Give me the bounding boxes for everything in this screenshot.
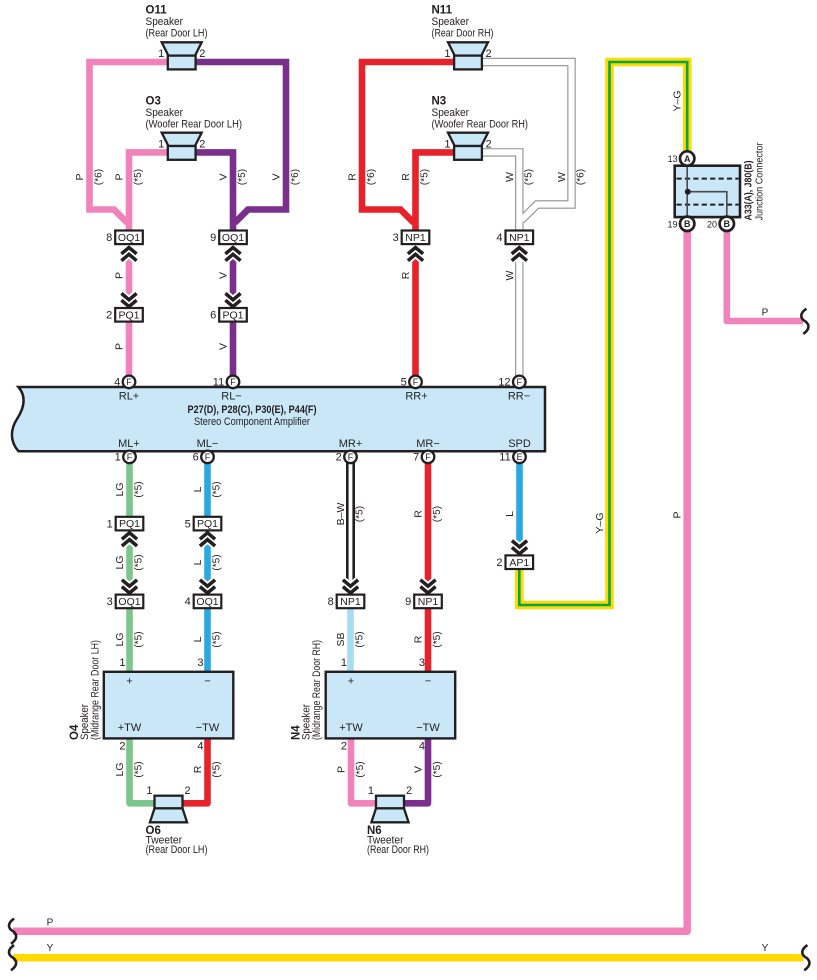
svg-text:1: 1 [115,452,121,464]
svg-text:1: 1 [444,48,450,60]
svg-text:LG: LG [114,555,126,569]
svg-text:5: 5 [401,377,407,389]
speaker N3 symbol [448,133,488,146]
svg-text:P: P [47,918,54,929]
svg-text:(*5): (*5) [212,761,223,777]
wire segment: Y-G yellow-green wire AP1-2 to junction connector pin 13A [519,62,687,605]
svg-text:P: P [114,343,126,350]
junction connector internal dashed bus 1 [677,178,739,180]
amplifier pin 12 (F) [513,376,526,389]
svg-text:Y–G: Y–G [672,90,684,111]
wire segment: pink P branch from junction connector pin 20B to right edge [727,229,803,321]
svg-text:(Woofer Rear Door RH): (Woofer Rear Door RH) [432,118,529,130]
svg-text:2: 2 [496,557,502,569]
svg-text:+: + [126,676,132,688]
svg-text:Speaker: Speaker [146,16,184,28]
svg-text:(*6): (*6) [576,169,587,185]
svg-text:W: W [504,172,516,182]
connector OQ1 pin 9 [219,231,247,245]
svg-text:RR+: RR+ [405,391,427,403]
svg-text:PQ1: PQ1 [197,518,218,530]
svg-text:(Rear Door RH): (Rear Door RH) [367,844,429,856]
svg-text:(*5): (*5) [237,169,248,185]
svg-text:1: 1 [119,657,125,669]
connector arrow below OQ1-8 [121,248,136,261]
svg-text:5: 5 [185,518,191,530]
svg-text:NP1: NP1 [405,232,426,244]
wire segment: MR+ black-white B-W wire amplifier pin 2 to NP1-8 [346,461,355,595]
svg-text:(Rear Door LH): (Rear Door LH) [146,844,208,856]
svg-text:P27(D), P28(C), P30(E), P44(F): P27(D), P28(C), P30(E), P44(F) [188,404,317,416]
wire segment: O11 pink speaker feed (outer P wire) [90,62,168,223]
svg-text:(*5): (*5) [212,631,223,647]
svg-text:N3: N3 [432,95,447,107]
break symbol bottom left pink [9,919,16,944]
svg-text:−TW: −TW [416,722,440,734]
svg-text:RR−: RR− [508,391,530,403]
svg-text:8: 8 [328,596,334,608]
svg-text:(*5): (*5) [355,631,366,647]
svg-text:1: 1 [158,138,164,150]
speaker N4 (Midrange Rear Door RH) box [326,672,456,739]
wire segment: LG wire PQ1-1 to OQ1-3 [126,529,133,596]
svg-text:NP1: NP1 [509,232,530,244]
svg-text:NP1: NP1 [418,596,439,608]
svg-text:LG: LG [114,762,126,776]
svg-text:(Midrange Rear Door LH): (Midrange Rear Door LH) [90,640,102,740]
wire segment: V wire OQ1-9 to PQ1-6 [230,243,237,310]
svg-text:(*6): (*6) [94,169,105,185]
wire segment: MR- red R wire amplifier pin 7 to NP1-9 [425,460,432,596]
svg-text:6: 6 [210,310,216,322]
svg-text:9: 9 [210,232,216,244]
svg-text:2: 2 [106,310,112,322]
amplifier P27/P28/P30/P44 Stereo Component Amplifier box [12,387,545,451]
svg-text:F: F [348,452,354,462]
svg-text:8: 8 [106,232,112,244]
wire segment: N11 white return (outer W wire) [482,62,572,220]
svg-text:−: − [204,676,210,688]
svg-text:2: 2 [406,785,412,797]
connector arrow below PQ1-1 [122,533,137,546]
svg-text:PQ1: PQ1 [222,309,243,321]
svg-text:Speaker: Speaker [432,16,470,28]
wire segment: R wire NP1-9 to speaker N4 pin 3 [425,607,432,672]
svg-text:L: L [192,486,204,492]
svg-text:L: L [192,559,204,565]
svg-text:2: 2 [199,48,205,60]
connector NP1 pin 4 [506,231,534,245]
svg-text:19: 19 [667,219,677,229]
svg-text:P: P [336,766,348,773]
junction connector internal wire to B20 [687,192,727,221]
svg-text:N11: N11 [432,5,453,17]
svg-text:F: F [517,377,523,387]
junction connector internal dashed bus 2 [677,204,739,206]
connector arrow above OQ1-4 [200,580,215,593]
svg-text:2: 2 [486,138,492,150]
junction connector internal node dot [685,189,691,195]
svg-text:OQ1: OQ1 [118,232,140,244]
connector arrow above AP1-2 [512,541,527,554]
amplifier pin 7 (F) [422,451,435,464]
wire segment: R wire NP1-3 to amplifier pin 5 [412,243,419,377]
svg-text:2: 2 [336,452,342,464]
svg-text:4: 4 [197,741,203,753]
svg-text:Y: Y [47,943,54,954]
connector OQ1 pin 8 [115,231,143,245]
svg-text:Y–G: Y–G [594,512,606,533]
svg-text:+TW: +TW [339,722,363,734]
svg-text:AP1: AP1 [509,557,529,569]
svg-text:F: F [127,452,133,462]
connector arrow below NP1-4 [512,248,527,261]
svg-text:−TW: −TW [196,722,220,734]
svg-text:F: F [413,377,419,387]
speaker O4 (Midrange Rear Door LH) box [104,672,234,739]
svg-text:R: R [192,765,204,773]
svg-text:1: 1 [341,657,347,669]
svg-text:R: R [400,271,412,279]
connector arrow below NP1-3 [408,248,423,261]
svg-text:2: 2 [486,48,492,60]
tweeter O6 symbol [155,796,183,809]
wire segment: ML+ light-green LG wire amplifier pin 1 to PQ1-1 [126,460,133,518]
svg-text:LG: LG [114,482,126,496]
svg-text:(Midrange Rear Door RH): (Midrange Rear Door RH) [311,640,323,740]
wire segment: N3 red speaker feed (inner R wire) to NP1 pin 3 [416,152,455,233]
svg-text:(*5): (*5) [524,169,535,185]
svg-text:Y: Y [762,943,769,954]
wire segment: O4 tweeter feed LG wire to O6 pin 1 [130,737,156,803]
svg-text:2: 2 [341,741,347,753]
connector OQ1 pin 3 [116,595,144,609]
break symbol bottom right yellow [802,945,809,970]
svg-text:RL−: RL− [221,391,242,403]
connector arrow above PQ1-6 [225,293,240,306]
svg-text:1: 1 [444,138,450,150]
connector NP1 pin 9 [414,595,442,609]
svg-text:V: V [218,272,230,279]
wire segment: N3 white return (inner W wire) to NP1 pin 4 [482,152,519,233]
svg-text:R: R [413,635,425,643]
svg-text:12: 12 [498,377,510,389]
svg-text:B: B [724,219,731,229]
svg-text:W: W [504,270,516,280]
svg-text:B–W: B–W [335,503,347,526]
svg-text:Junction Connector: Junction Connector [754,142,766,220]
svg-text:V: V [413,766,425,773]
svg-text:4: 4 [496,232,502,244]
svg-text:(Rear Door LH): (Rear Door LH) [146,27,208,39]
amplifier pin 5 (F) [409,376,422,389]
svg-text:9: 9 [405,596,411,608]
amplifier pin 11 (E) [513,451,526,464]
svg-text:+: + [348,676,354,688]
wire segment: N4 tweeter feed P wire to N6 pin 1 [351,737,377,803]
amplifier pin 11 (F) [227,376,240,389]
svg-text:Speaker: Speaker [146,107,184,119]
connector arrow above NP1-9 [420,580,435,593]
connector PQ1 pin 1 [116,517,144,531]
svg-text:LG: LG [114,632,126,646]
wire segment: SB sky-blue wire NP1-8 to speaker N4 pin 1 [347,607,354,672]
wire segment: yellow Y wire across page bottom [13,954,804,962]
svg-text:4: 4 [185,596,191,608]
svg-text:P: P [762,308,769,319]
connector arrow above OQ1-3 [122,580,137,593]
wire segment: pink P trunk from junction connector pin 19B down and across page bottom [13,229,687,931]
svg-text:6: 6 [193,452,199,464]
svg-text:P: P [74,173,86,180]
connector arrow below OQ1-9 [225,248,240,261]
svg-text:R: R [413,510,425,518]
svg-text:O11: O11 [146,5,168,17]
svg-text:4: 4 [114,377,120,389]
svg-text:B: B [684,219,691,229]
junction connector pin 20 (B) [720,217,734,231]
junction connector pin 13 (A) [680,151,694,165]
connector arrow above PQ1-2 [121,293,136,306]
connector arrow below PQ1-5 [200,533,215,546]
svg-text:OQ1: OQ1 [222,232,244,244]
svg-text:(*5): (*5) [355,761,366,777]
wire segment: O4 tweeter return R wire to O6 pin 2 [182,737,208,803]
svg-text:11: 11 [499,452,510,464]
svg-text:1: 1 [158,48,164,60]
svg-text:(*5): (*5) [432,506,443,522]
connector AP1 pin 2 [506,555,534,569]
svg-text:RL+: RL+ [119,391,140,403]
svg-text:13: 13 [668,154,678,164]
svg-text:L: L [504,511,516,517]
svg-text:NP1: NP1 [340,596,361,608]
svg-text:PQ1: PQ1 [118,309,139,321]
svg-text:(*5): (*5) [355,506,366,522]
svg-text:(Woofer Rear Door LH): (Woofer Rear Door LH) [146,118,243,130]
svg-text:(*5): (*5) [212,481,223,497]
svg-text:2: 2 [199,138,205,150]
speaker O11 symbol [162,42,202,55]
wire segment: O3 pink speaker feed (inner P wire) down to connector OQ1 pin 8 [129,152,168,233]
svg-text:MR+: MR+ [339,438,363,450]
wire segment: SPD blue L wire amplifier pin 11E to connector AP1 pin 2 [516,460,523,556]
svg-text:F: F [425,452,431,462]
wire segment: O3 purple return (inner V wire) to OQ1 pin 9 [196,152,233,233]
svg-text:+TW: +TW [118,722,142,734]
svg-text:P: P [114,173,126,180]
junction connector A33(A) J80(B) box [675,166,740,217]
wire segment: N4 tweeter return V wire to N6 pin 2 [403,737,428,803]
connector NP1 pin 3 [402,231,430,245]
amplifier pin 1 (F) [123,451,136,464]
svg-text:SB: SB [335,632,347,646]
connector NP1 pin 8 [337,595,365,609]
svg-text:MR−: MR− [416,438,440,450]
svg-text:3: 3 [197,657,203,669]
svg-text:OQ1: OQ1 [118,596,140,608]
svg-text:(Rear Door RH): (Rear Door RH) [432,27,494,39]
svg-text:3: 3 [419,657,425,669]
svg-text:E: E [516,452,522,462]
wire segment: P wire OQ1-8 to PQ1-2 [126,243,133,310]
svg-text:V: V [271,173,283,180]
svg-text:A: A [684,154,691,164]
svg-text:4: 4 [419,741,425,753]
speaker N11 symbol [448,42,488,55]
wire segment: V wire PQ1-6 to amplifier pin 11 [230,320,237,377]
tweeter N6 symbol [376,796,404,809]
speaker O3 symbol [162,133,202,146]
svg-text:F: F [230,377,236,387]
svg-text:(*5): (*5) [134,481,145,497]
wire segment: ML- blue L wire amplifier pin 6 to PQ1-5 [204,460,211,518]
svg-text:(*5): (*5) [134,761,145,777]
wire segment: L wire PQ1-5 to OQ1-4 [204,529,211,596]
svg-text:R: R [347,173,359,181]
svg-text:2: 2 [119,741,125,753]
svg-text:20: 20 [707,219,717,229]
svg-text:F: F [205,452,211,462]
amplifier pin 6 (F) [201,451,214,464]
svg-text:−: − [425,676,431,688]
junction connector internal wire A to B19 [686,162,688,221]
wire segment: L wire OQ1-4 to speaker O4 pin 3 [204,607,211,672]
svg-text:(*5): (*5) [134,631,145,647]
wire segment: W wire NP1-4 to amplifier pin 12 [515,243,523,377]
svg-text:W: W [556,172,568,182]
svg-text:3: 3 [107,596,113,608]
svg-text:1: 1 [368,785,374,797]
svg-text:3: 3 [393,232,399,244]
wire segment: N11 red speaker feed (outer R wire) [362,62,454,223]
svg-text:F: F [126,377,132,387]
wire segment: LG wire OQ1-3 to speaker O4 pin 1 [126,607,133,672]
connector PQ1 pin 2 [115,308,143,322]
connector PQ1 pin 5 [194,517,222,531]
svg-text:OQ1: OQ1 [196,596,218,608]
svg-text:1: 1 [146,785,152,797]
svg-text:PQ1: PQ1 [119,518,140,530]
svg-text:O3: O3 [146,95,161,107]
svg-text:(*5): (*5) [212,554,223,570]
svg-text:P: P [114,272,126,279]
svg-text:7: 7 [413,452,419,464]
svg-text:SPD: SPD [508,438,531,450]
break symbol on pink branch right edge [801,309,808,334]
svg-text:11: 11 [213,377,224,389]
wire segment: O11 purple return (outer V wire) [196,62,286,223]
svg-text:(*5): (*5) [133,169,144,185]
svg-text:1: 1 [107,518,113,530]
svg-text:R: R [400,173,412,181]
svg-text:(*6): (*6) [366,169,377,185]
svg-text:(*5): (*5) [432,631,443,647]
svg-text:V: V [218,343,230,350]
svg-text:(*5): (*5) [134,554,145,570]
connector PQ1 pin 6 [219,308,247,322]
connector OQ1 pin 4 [194,595,222,609]
svg-text:Stereo Component Amplifier: Stereo Component Amplifier [194,416,310,428]
junction connector pin 19 (B) [680,217,694,231]
svg-text:2: 2 [185,785,191,797]
svg-text:L: L [192,636,204,642]
svg-text:(*6): (*6) [290,169,301,185]
svg-text:V: V [218,173,230,180]
svg-text:Speaker: Speaker [432,107,470,119]
wire segment: P wire PQ1-2 to amplifier pin 4 [126,320,133,377]
svg-text:(*5): (*5) [420,169,431,185]
amplifier pin 2 (F) [344,451,357,464]
amplifier pin 4 (F) [123,376,136,389]
break symbol bottom left yellow [9,945,16,970]
svg-text:(*5): (*5) [432,761,443,777]
svg-text:P: P [672,511,684,518]
svg-text:ML−: ML− [197,438,219,450]
connector arrow above NP1-8 [343,580,358,593]
svg-text:ML+: ML+ [118,438,140,450]
